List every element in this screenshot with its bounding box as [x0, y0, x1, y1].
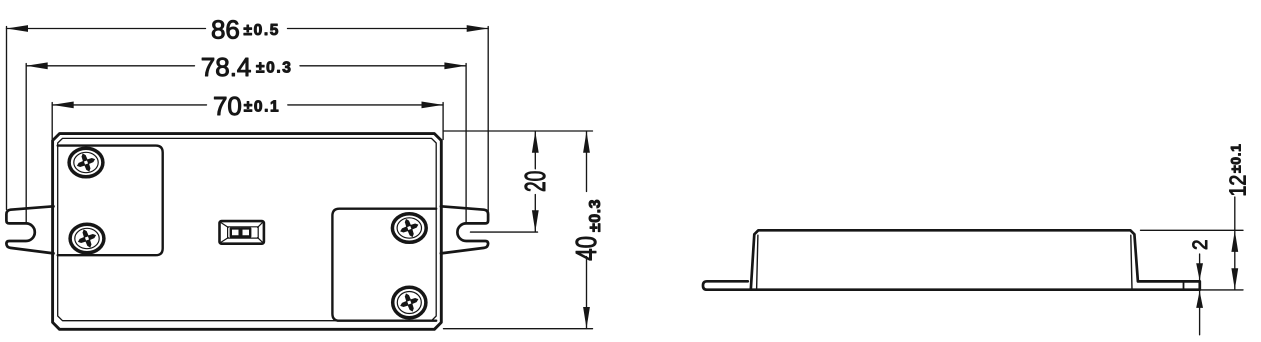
svg-text:±0.1: ±0.1	[1228, 143, 1244, 173]
svg-text:20: 20	[520, 171, 552, 192]
svg-text:70: 70	[213, 91, 242, 121]
svg-text:±0.1: ±0.1	[244, 99, 280, 116]
svg-text:±0.5: ±0.5	[244, 22, 280, 39]
svg-text:±0.3: ±0.3	[256, 60, 292, 77]
svg-text:40: 40	[571, 236, 602, 261]
svg-text:78.4: 78.4	[201, 52, 252, 82]
svg-text:±0.3: ±0.3	[587, 199, 604, 232]
svg-text:2: 2	[1189, 240, 1212, 251]
svg-text:86: 86	[211, 15, 240, 45]
svg-text:12: 12	[1225, 175, 1251, 197]
